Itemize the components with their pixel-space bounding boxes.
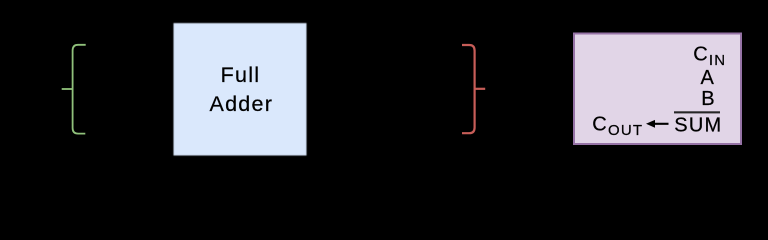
svg-text:B: B bbox=[701, 88, 714, 110]
output brace (red, right curly bracket) bbox=[462, 45, 485, 133]
Full Adder block bbox=[174, 23, 307, 155]
arrow (carry out direction) bbox=[646, 120, 655, 128]
svg-text:SUM: SUM bbox=[674, 114, 722, 136]
svg-text:A: A bbox=[701, 67, 715, 89]
input brace (green, left curly bracket) bbox=[62, 45, 86, 134]
svg-text:Adder: Adder bbox=[209, 92, 273, 116]
result box (pink) bbox=[574, 34, 741, 145]
svg-text:Full: Full bbox=[221, 63, 261, 87]
sum line bbox=[674, 111, 720, 113]
